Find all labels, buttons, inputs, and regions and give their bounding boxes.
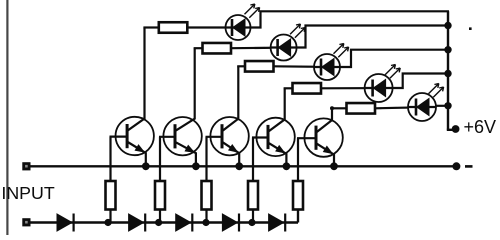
svg-text:INPUT: INPUT <box>1 183 54 203</box>
svg-text:+6V: +6V <box>464 117 497 137</box>
